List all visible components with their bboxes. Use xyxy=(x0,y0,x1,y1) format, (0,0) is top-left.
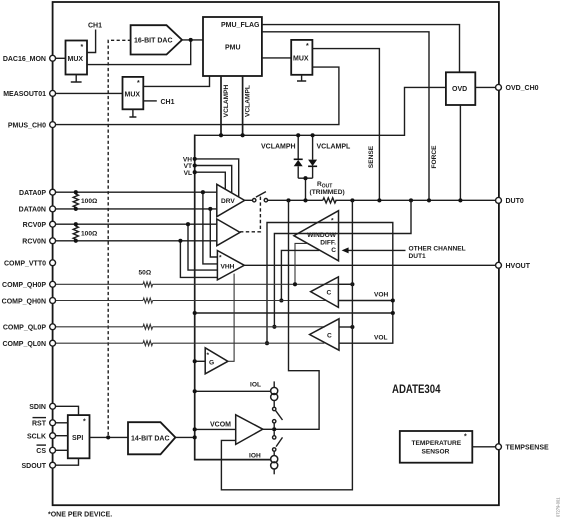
wire DUT0 drop (comparator inputs / VCOM feedback) xyxy=(221,200,352,489)
svg-text:OVD: OVD xyxy=(452,86,467,93)
node C2 input junction xyxy=(350,325,354,329)
svg-text:16-BIT DAC: 16-BIT DAC xyxy=(134,38,173,45)
svg-text:RCV0P: RCV0P xyxy=(23,222,47,229)
comparator C (VOH) xyxy=(311,277,339,308)
wire SDOUT to SPI xyxy=(53,458,79,465)
svg-text:IOL: IOL xyxy=(250,382,261,389)
port COMP_VTT0 xyxy=(4,260,56,268)
temperature sensor block xyxy=(400,431,473,463)
wire CS to SPI xyxy=(53,449,68,451)
svg-text:PMU: PMU xyxy=(225,44,241,51)
node QH0P comparator input xyxy=(350,282,354,286)
wire VCLAMPL rail from PMU xyxy=(242,76,244,135)
svg-text:COMP_QH0N: COMP_QH0N xyxy=(2,298,46,305)
svg-text:*: * xyxy=(83,419,86,426)
amplifier G xyxy=(205,348,228,374)
svg-text:COMP_VTT0: COMP_VTT0 xyxy=(4,261,46,268)
svg-text:*: * xyxy=(306,43,309,50)
wire temperature sensor to TEMPSENSE port xyxy=(472,446,498,448)
port PMUS_CH0 xyxy=(8,122,56,130)
node VCLAMPH junction xyxy=(219,133,223,137)
svg-text:DIFF.: DIFF. xyxy=(320,239,336,246)
svg-text:VOL: VOL xyxy=(374,334,388,341)
wire DUT0 rail xyxy=(268,199,499,201)
svg-text:DATA0P: DATA0P xyxy=(19,190,46,197)
wire U2 output to PMU bottom xyxy=(143,76,209,86)
current source IOL xyxy=(271,381,278,407)
port DATA0N xyxy=(19,206,56,214)
node RCV0P drop xyxy=(186,222,190,226)
node VCLAMPL junction xyxy=(241,133,245,137)
wire G input from bus xyxy=(195,360,206,362)
port COMP_QH0N xyxy=(2,298,56,306)
receiver comparator (RCV) xyxy=(217,219,240,246)
svg-text:COMP_QL0P: COMP_QL0P xyxy=(3,325,47,332)
svg-text:07279-001: 07279-001 xyxy=(556,497,561,517)
svg-text:SENSOR: SENSOR xyxy=(422,449,450,456)
port MEASOUT01 xyxy=(3,90,55,98)
port DUT0 xyxy=(496,197,524,205)
svg-text:SPI: SPI xyxy=(72,435,83,442)
node D2 output at bus xyxy=(193,435,197,439)
wire window input from QH0N drop xyxy=(281,250,319,300)
wire VT to DRV xyxy=(195,166,232,194)
svg-text:SCLK: SCLK xyxy=(27,434,46,441)
ground stub below U3 xyxy=(297,75,306,81)
wire VCOM output to switch node xyxy=(263,428,274,430)
driver DRV xyxy=(217,184,245,216)
wire diode common to DUT0 rail xyxy=(298,178,312,200)
wire window output drop to QH0P row xyxy=(295,243,308,284)
wire OVD output to OVD_CH0 port xyxy=(475,86,498,88)
switch SW2 (IOL to node) xyxy=(273,407,283,427)
svg-text:*: * xyxy=(464,434,467,441)
node RCV0N drop xyxy=(178,239,182,243)
svg-text:C: C xyxy=(331,247,336,254)
svg-text:*: * xyxy=(137,80,140,87)
node diode branch top H xyxy=(296,133,300,137)
port COMP_QH0P xyxy=(2,281,56,289)
node DUT0 rail: OVD xyxy=(458,198,462,202)
wire VH to DRV xyxy=(195,159,239,197)
svg-text:TEMPSENSE: TEMPSENSE xyxy=(506,445,550,452)
node switch common xyxy=(272,427,276,431)
current source IOH xyxy=(271,451,278,474)
resistor 100ohm (DATA pair) xyxy=(73,190,98,211)
port CS (active low) xyxy=(36,445,55,455)
node CH1 select (U2) xyxy=(143,99,174,106)
node VH xyxy=(193,157,197,161)
wire PMU_FLAG to OVD top xyxy=(262,25,460,73)
svg-text:VCLAMPL: VCLAMPL xyxy=(245,85,252,117)
wire DATA0P row xyxy=(53,191,217,193)
wire D2 output to bus xyxy=(175,436,194,438)
port SCLK xyxy=(27,433,56,441)
svg-text:MEASOUT01: MEASOUT01 xyxy=(3,91,46,98)
wire U3 to PMUS_CH0 port xyxy=(53,67,339,125)
svg-text:VCOM: VCOM xyxy=(210,421,231,428)
wire DATA0N drop to VHH xyxy=(210,209,217,257)
wire MEASOUT01 port to U2 xyxy=(53,92,123,94)
mux U2 (MEASOUT mux) xyxy=(123,77,144,109)
svg-text:14-BIT DAC: 14-BIT DAC xyxy=(131,435,170,442)
SPI block xyxy=(68,415,90,458)
wire SDIN to SPI xyxy=(53,406,79,415)
wire DUT0 drop (switch feedback) xyxy=(274,200,319,429)
mux U1 (DAC16_MON monitor mux) xyxy=(66,41,88,75)
dashed SPI control bus xyxy=(108,40,131,437)
node CH1 select (U1) xyxy=(87,23,102,53)
svg-text:DRV: DRV xyxy=(221,198,235,205)
wire window line B (QL0P net to DUT0) xyxy=(274,200,411,326)
port COMP_QL0N xyxy=(2,340,55,348)
svg-text:MUX: MUX xyxy=(293,56,309,63)
wire U1 input from 16-BIT DAC output node xyxy=(87,40,191,65)
wire SCLK to SPI xyxy=(53,435,68,437)
svg-text:*: * xyxy=(207,352,210,359)
wire clamp node line to OVD input xyxy=(195,87,446,135)
wire RCV0N drop to VHH xyxy=(180,241,217,278)
wire DAC16_MON port to U1 xyxy=(53,57,66,59)
node QH0P window output xyxy=(293,282,297,286)
wire C1 input from DUT0 drop xyxy=(338,283,352,285)
resistor 50ohm (QH0N) xyxy=(143,298,153,303)
wire RCV0N row xyxy=(53,240,217,242)
svg-text:*ONE PER DEVICE.: *ONE PER DEVICE. xyxy=(48,512,112,519)
wire OVD bottom to DUT0 rail xyxy=(459,105,461,200)
port DAC16_MON xyxy=(3,55,56,63)
switch SW1 (DRV output) xyxy=(253,192,268,202)
node DUT0 rail: window drop xyxy=(286,198,290,202)
resistor 100ohm (RCV pair) xyxy=(73,222,98,243)
svg-text:DATA0N: DATA0N xyxy=(19,207,46,214)
node DUT0 rail: diode branch xyxy=(303,198,307,202)
node DATA0P drop xyxy=(201,190,205,194)
resistor R_OUT (trimmed) xyxy=(310,181,345,203)
mux U3 (PMU measure mux) xyxy=(291,40,312,75)
node SPI bus junction xyxy=(106,435,110,439)
wire SPI to 14-bit DAC xyxy=(90,436,129,438)
wire C2 input from DUT0 drop xyxy=(339,326,352,328)
port SDOUT xyxy=(22,462,56,470)
amplifier VHH xyxy=(217,251,244,280)
port COMP_QL0P xyxy=(3,324,56,332)
svg-text:DUT1: DUT1 xyxy=(409,253,427,260)
node diode branch top L xyxy=(311,133,315,137)
OVD block xyxy=(446,72,475,105)
node mid link left xyxy=(193,311,197,315)
ground stub below U1 xyxy=(71,75,82,83)
svg-text:VCLAMPH: VCLAMPH xyxy=(261,143,296,150)
svg-text:VCLAMPL: VCLAMPL xyxy=(317,143,352,150)
wire receiver dashed output to switch xyxy=(240,197,260,232)
resistor 50ohm (QL0P) xyxy=(143,324,153,329)
svg-text:FORCE: FORCE xyxy=(431,145,438,169)
svg-text:SDIN: SDIN xyxy=(29,404,46,411)
svg-text:CH1: CH1 xyxy=(161,99,175,106)
switch SW3 (node to IOH) xyxy=(273,431,283,451)
port RST (active low) xyxy=(32,418,56,428)
node VL xyxy=(193,170,197,174)
wire DATA0P drop to VHH xyxy=(203,192,218,264)
svg-text:SENSE: SENSE xyxy=(368,145,375,168)
wire window line A (QL0N net) xyxy=(267,223,393,344)
svg-text:PMU_FLAG: PMU_FLAG xyxy=(221,22,260,29)
wire DATA0N row xyxy=(53,208,217,210)
svg-text:DUT0: DUT0 xyxy=(506,198,524,205)
node DATA0N drop xyxy=(208,207,212,211)
wire RCV0P row xyxy=(53,223,217,225)
svg-text:MUX: MUX xyxy=(68,56,84,63)
svg-text:OVD_CH0: OVD_CH0 xyxy=(506,85,539,92)
wire SENSE (U3 to DUT0 rail) xyxy=(312,49,379,201)
node DUT0 rail: FORCE xyxy=(427,198,431,202)
wire FORCE (PMU force to DUT0 rail) xyxy=(262,32,429,201)
svg-text:G: G xyxy=(209,359,214,366)
resistor 50ohm (QH0P) xyxy=(139,269,153,286)
wire OTHER CHANNEL DUT1 arrow xyxy=(342,245,466,259)
node DUT0 rail: window line B xyxy=(409,198,413,202)
wire VCLAMPH rail from PMU xyxy=(220,76,222,135)
node VCOM input xyxy=(193,427,197,431)
port TEMPSENSE xyxy=(496,444,549,452)
svg-text:RST: RST xyxy=(32,421,47,428)
svg-text:VOH: VOH xyxy=(374,292,389,299)
node diode common xyxy=(303,176,307,180)
svg-text:VCLAMPH: VCLAMPH xyxy=(223,84,230,117)
wire mid link (bus to comparator block) xyxy=(195,312,393,314)
port RCV0N xyxy=(22,238,55,246)
svg-text:MUX: MUX xyxy=(125,92,141,99)
svg-text:RCV0N: RCV0N xyxy=(22,239,46,246)
node VT xyxy=(193,163,197,167)
wire DRV output to switch xyxy=(245,199,253,201)
diode DCH (to VCLAMPH) xyxy=(294,135,303,178)
node G input xyxy=(193,359,197,363)
svg-text:100Ω: 100Ω xyxy=(81,231,98,238)
wire COMP_QL0P row xyxy=(53,326,325,328)
node QH0N drop xyxy=(279,298,283,302)
wire VHH output to HVOUT port xyxy=(244,264,498,266)
svg-text:HVOUT: HVOUT xyxy=(506,263,531,270)
wire COMP_QH0P row xyxy=(53,283,353,285)
svg-text:100Ω: 100Ω xyxy=(81,198,98,205)
svg-text:*: * xyxy=(219,255,222,262)
node DAC output junction xyxy=(189,38,193,42)
comparator C (VOL) xyxy=(310,319,339,350)
svg-text:CH1: CH1 xyxy=(88,23,102,30)
14-bit DAC D2 xyxy=(128,422,175,454)
node DUT0 rail: comparator drop xyxy=(350,198,354,202)
wire RCV0P drop to VHH xyxy=(188,224,217,270)
svg-text:(TRIMMED): (TRIMMED) xyxy=(310,189,345,196)
PMU block xyxy=(203,17,262,76)
svg-text:*: * xyxy=(331,218,334,225)
svg-text:VL: VL xyxy=(184,170,192,177)
wire level bus vertical + IOH feed xyxy=(195,135,271,460)
resistor 50ohm (QL0N) xyxy=(143,341,153,346)
port SDIN xyxy=(29,403,55,411)
svg-text:50Ω: 50Ω xyxy=(139,269,152,276)
svg-text:VHH: VHH xyxy=(221,263,235,270)
wire VCOM input from bus xyxy=(195,428,236,430)
port RCV0P xyxy=(23,221,56,229)
buffer VCOM xyxy=(210,415,263,445)
svg-text:PMUS_CH0: PMUS_CH0 xyxy=(8,122,46,129)
chip boundary ADATE304 xyxy=(53,2,499,505)
node line A at QL0N row xyxy=(265,341,269,345)
wire VOH output xyxy=(338,300,392,302)
node line B at QL0P row xyxy=(272,325,276,329)
node mid link right xyxy=(391,311,395,315)
svg-text:TEMPERATURE: TEMPERATURE xyxy=(412,440,462,447)
wire VL to DRV xyxy=(195,172,226,189)
svg-text:CS: CS xyxy=(36,448,46,455)
svg-text:IOH: IOH xyxy=(249,452,261,459)
port HVOUT xyxy=(496,262,531,270)
window comparator (WINDOW DIFF. C) xyxy=(294,211,339,261)
svg-text:ADATE304: ADATE304 xyxy=(392,382,441,396)
node DUT0 rail: SENSE xyxy=(377,198,381,202)
svg-text:DAC16_MON: DAC16_MON xyxy=(3,56,46,63)
svg-text:OTHER CHANNEL: OTHER CHANNEL xyxy=(409,245,466,252)
port DATA0P xyxy=(19,189,56,197)
wire IOL feed xyxy=(195,390,271,392)
ground stub below U2 xyxy=(129,109,136,117)
svg-text:COMP_QH0P: COMP_QH0P xyxy=(2,282,46,289)
svg-text:C: C xyxy=(327,332,332,339)
node IOL feed xyxy=(193,389,197,393)
svg-text:COMP_QL0N: COMP_QL0N xyxy=(2,341,46,348)
wire COMP_QH0N row (VOH) xyxy=(53,300,327,302)
wire PMU to mux U3 xyxy=(262,57,291,59)
port OVD_CH0 xyxy=(496,84,539,92)
wire COMP_QL0N row xyxy=(53,342,325,344)
wire G output to VHH xyxy=(228,274,234,362)
wire D1 output to PMU xyxy=(182,39,203,41)
diode DCL (to VCLAMPL) xyxy=(308,135,317,178)
svg-text:*: * xyxy=(81,44,84,51)
node VOH junction xyxy=(391,298,395,302)
svg-text:C: C xyxy=(327,290,332,297)
svg-text:SDOUT: SDOUT xyxy=(22,463,47,470)
wire RST to SPI xyxy=(53,422,68,424)
16-bit DAC D1 xyxy=(131,25,182,54)
